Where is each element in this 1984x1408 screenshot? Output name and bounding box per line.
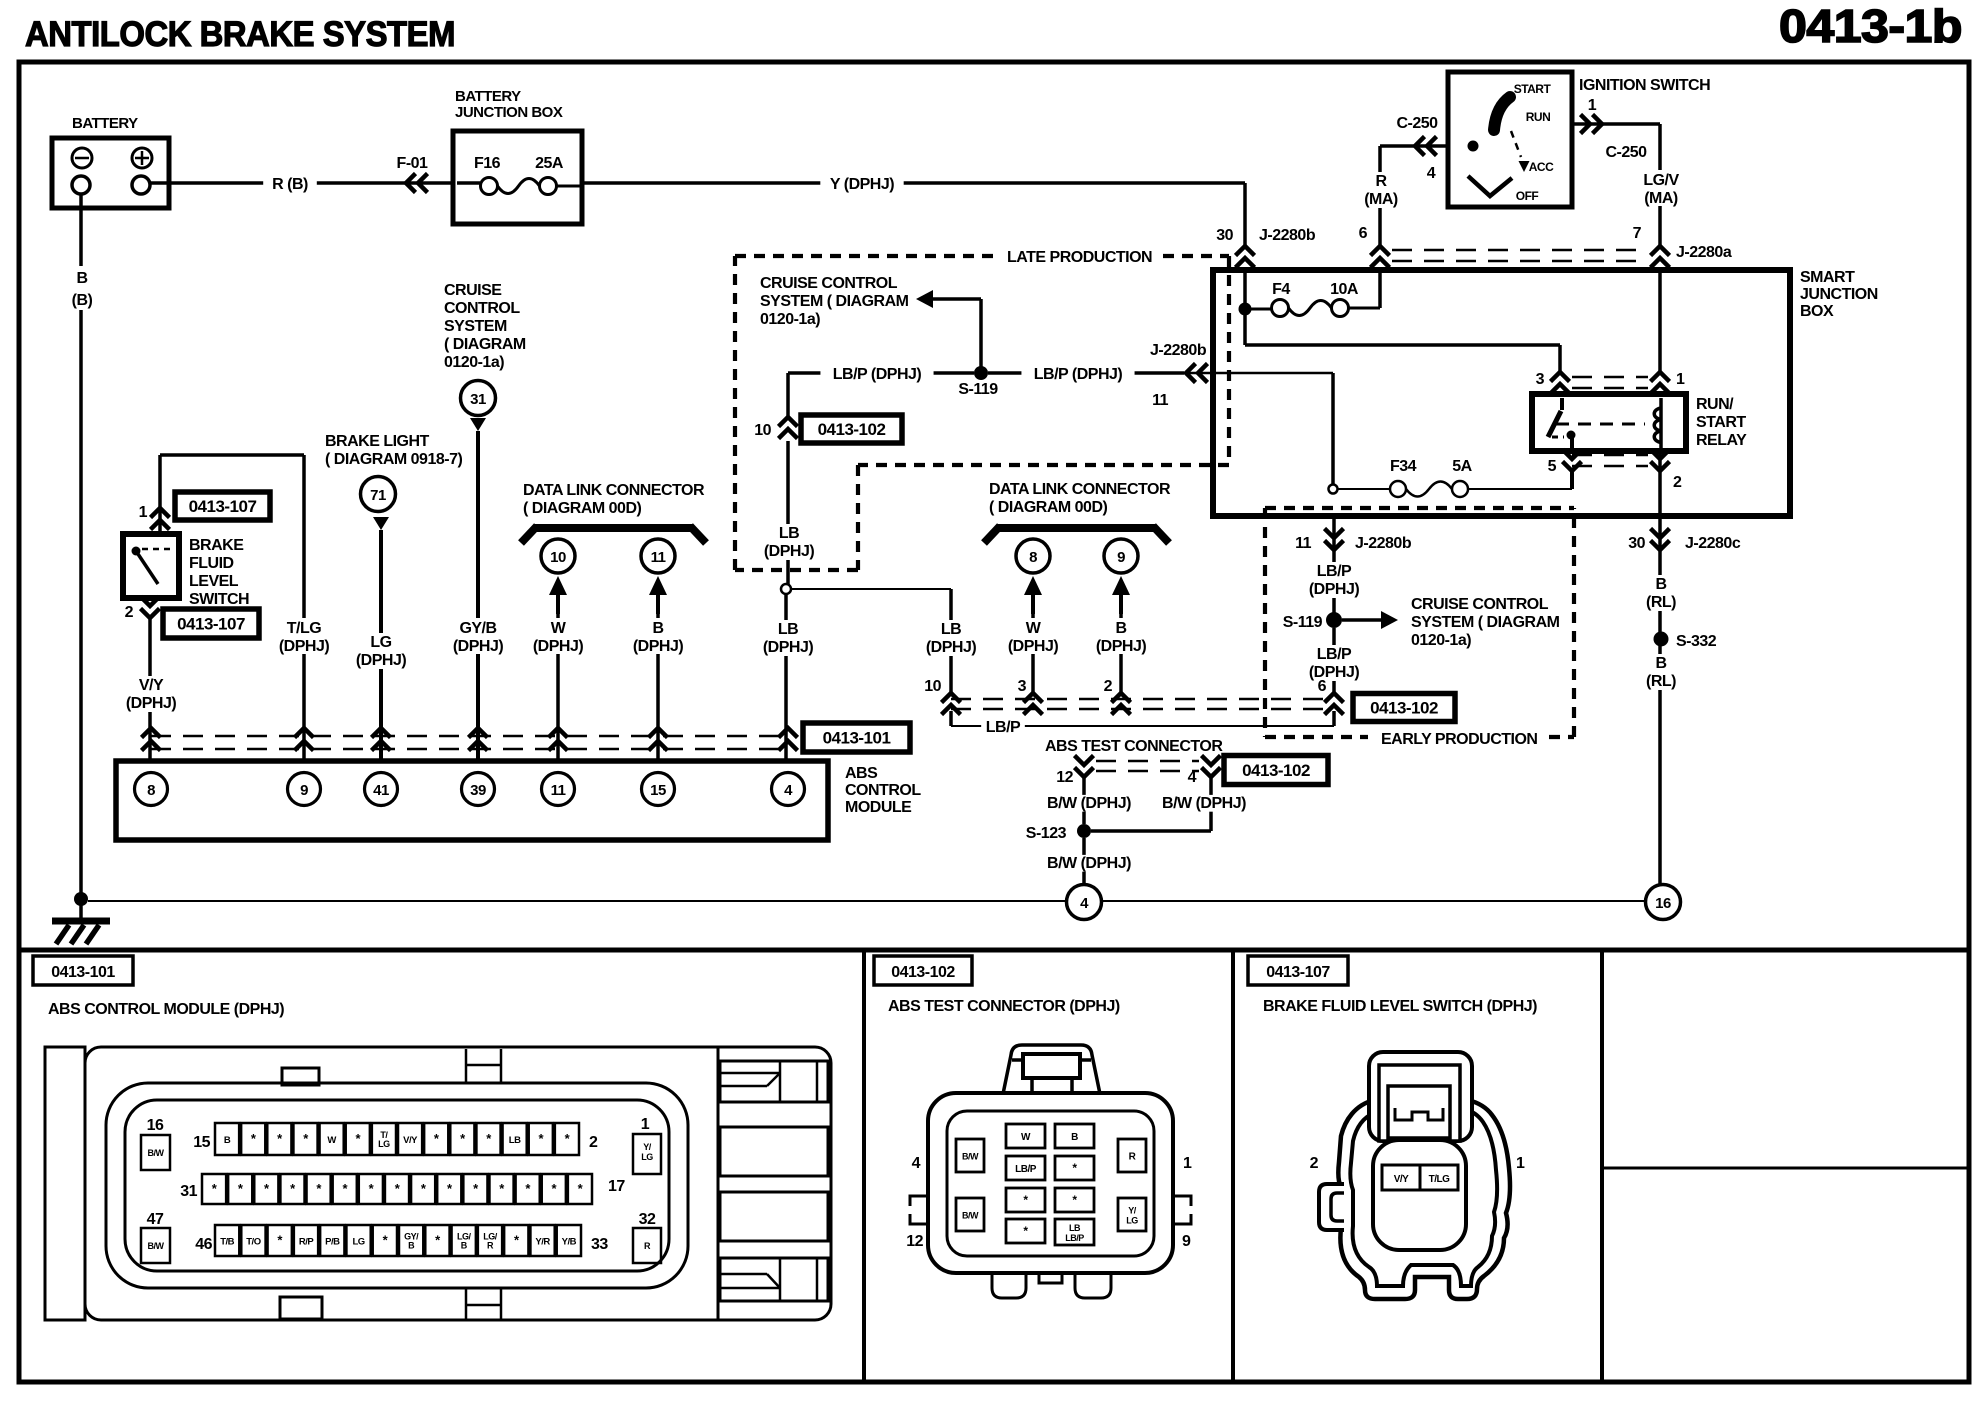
svg-text:16: 16 bbox=[147, 1117, 164, 1134]
svg-text:4: 4 bbox=[784, 782, 793, 799]
svg-text:LB/P (DPHJ): LB/P (DPHJ) bbox=[1034, 366, 1123, 383]
svg-text:R (B): R (B) bbox=[272, 176, 308, 193]
svg-text:5: 5 bbox=[1548, 458, 1557, 475]
svg-text:B/W (DPHJ): B/W (DPHJ) bbox=[1047, 855, 1131, 872]
svg-text:47: 47 bbox=[147, 1211, 164, 1228]
svg-text:15: 15 bbox=[650, 782, 666, 799]
svg-text:41: 41 bbox=[373, 782, 389, 799]
svg-text:1: 1 bbox=[139, 504, 148, 521]
svg-text:(DPHJ): (DPHJ) bbox=[1096, 638, 1147, 655]
svg-text:2: 2 bbox=[1673, 474, 1682, 491]
svg-text:BATTERY: BATTERY bbox=[72, 115, 138, 132]
svg-text:33: 33 bbox=[591, 1236, 608, 1253]
svg-text:F34: F34 bbox=[1390, 458, 1417, 475]
svg-text:(DPHJ): (DPHJ) bbox=[633, 638, 684, 655]
svg-text:4: 4 bbox=[912, 1155, 921, 1172]
svg-text:4: 4 bbox=[1188, 769, 1197, 786]
svg-text:B/W: B/W bbox=[962, 1152, 979, 1162]
svg-text:ABS TEST CONNECTOR: ABS TEST CONNECTOR bbox=[1045, 738, 1223, 755]
svg-text:LB: LB bbox=[509, 1135, 521, 1146]
svg-text:32: 32 bbox=[639, 1211, 656, 1228]
svg-text:( DIAGRAM: ( DIAGRAM bbox=[444, 336, 526, 353]
svg-text:W: W bbox=[551, 620, 567, 637]
svg-text:2: 2 bbox=[1104, 678, 1113, 695]
svg-text:R: R bbox=[487, 1241, 494, 1251]
svg-text:(DPHJ): (DPHJ) bbox=[1309, 581, 1360, 598]
svg-text:OFF: OFF bbox=[1516, 189, 1539, 203]
svg-text:4: 4 bbox=[1080, 895, 1089, 912]
svg-text:11: 11 bbox=[1295, 535, 1312, 552]
svg-text:11: 11 bbox=[651, 549, 666, 566]
svg-text:CRUISE: CRUISE bbox=[444, 282, 502, 299]
svg-text:71: 71 bbox=[370, 487, 386, 504]
svg-text:10: 10 bbox=[924, 678, 941, 695]
svg-text:START: START bbox=[1514, 82, 1552, 96]
svg-text:DATA LINK CONNECTOR: DATA LINK CONNECTOR bbox=[989, 481, 1171, 498]
svg-text:LB/P: LB/P bbox=[1317, 563, 1352, 580]
svg-text:LEVEL: LEVEL bbox=[189, 573, 239, 590]
svg-text:4: 4 bbox=[1427, 165, 1436, 182]
svg-text:16: 16 bbox=[1655, 895, 1671, 912]
svg-text:LG: LG bbox=[378, 1139, 390, 1149]
svg-text:12: 12 bbox=[1056, 769, 1073, 786]
svg-text:ABS TEST CONNECTOR (DPHJ): ABS TEST CONNECTOR (DPHJ) bbox=[888, 998, 1120, 1015]
svg-text:FLUID: FLUID bbox=[189, 555, 234, 572]
svg-text:LB: LB bbox=[779, 525, 799, 542]
svg-text:0413-107: 0413-107 bbox=[189, 497, 257, 516]
svg-text:START: START bbox=[1696, 414, 1746, 431]
svg-text:9: 9 bbox=[1182, 1233, 1191, 1250]
svg-text:SMART: SMART bbox=[1800, 269, 1855, 286]
svg-text:BRAKE LIGHT: BRAKE LIGHT bbox=[325, 433, 430, 450]
svg-text:( DIAGRAM 00D): ( DIAGRAM 00D) bbox=[523, 500, 642, 517]
svg-text:W: W bbox=[1021, 1132, 1031, 1143]
svg-text:T/B: T/B bbox=[220, 1237, 234, 1248]
svg-text:0413-1b: 0413-1b bbox=[1779, 0, 1962, 52]
svg-text:B: B bbox=[1115, 620, 1126, 637]
svg-text:CONTROL: CONTROL bbox=[444, 300, 520, 317]
svg-text:11: 11 bbox=[551, 782, 566, 799]
svg-text:EARLY PRODUCTION: EARLY PRODUCTION bbox=[1381, 731, 1537, 748]
svg-text:LB: LB bbox=[941, 621, 961, 638]
svg-text:BATTERY: BATTERY bbox=[455, 88, 521, 105]
svg-text:8: 8 bbox=[1029, 549, 1037, 566]
svg-text:MODULE: MODULE bbox=[845, 799, 912, 816]
svg-text:C-250: C-250 bbox=[1396, 115, 1438, 132]
svg-text:(DPHJ): (DPHJ) bbox=[279, 638, 330, 655]
svg-text:(DPHJ): (DPHJ) bbox=[1008, 638, 1059, 655]
svg-text:P/B: P/B bbox=[325, 1237, 340, 1248]
svg-text:39: 39 bbox=[470, 782, 486, 799]
svg-text:J-2280a: J-2280a bbox=[1676, 244, 1732, 261]
svg-text:RUN: RUN bbox=[1526, 110, 1551, 124]
svg-text:(MA): (MA) bbox=[1364, 191, 1398, 208]
svg-text:LB/P: LB/P bbox=[1065, 1233, 1084, 1243]
svg-text:1: 1 bbox=[1588, 97, 1597, 114]
svg-text:30: 30 bbox=[1628, 535, 1645, 552]
svg-text:W: W bbox=[327, 1135, 336, 1146]
svg-text:31: 31 bbox=[470, 391, 486, 408]
svg-text:B: B bbox=[224, 1135, 231, 1146]
svg-text:S-119: S-119 bbox=[958, 381, 998, 398]
svg-text:RELAY: RELAY bbox=[1696, 432, 1747, 449]
svg-text:SYSTEM ( DIAGRAM: SYSTEM ( DIAGRAM bbox=[760, 293, 909, 310]
svg-text:10: 10 bbox=[550, 549, 566, 566]
svg-text:CONTROL: CONTROL bbox=[845, 782, 921, 799]
svg-text:3: 3 bbox=[1018, 678, 1027, 695]
svg-text:(DPHJ): (DPHJ) bbox=[764, 543, 815, 560]
svg-text:0120-1a): 0120-1a) bbox=[760, 311, 820, 328]
svg-text:J-2280c: J-2280c bbox=[1685, 535, 1741, 552]
svg-text:SYSTEM ( DIAGRAM: SYSTEM ( DIAGRAM bbox=[1411, 614, 1560, 631]
svg-text:B/W (DPHJ): B/W (DPHJ) bbox=[1047, 795, 1131, 812]
svg-text:V/Y: V/Y bbox=[139, 677, 164, 694]
svg-text:25A: 25A bbox=[535, 155, 564, 172]
svg-text:(RL): (RL) bbox=[1646, 673, 1676, 690]
svg-text:DATA LINK CONNECTOR: DATA LINK CONNECTOR bbox=[523, 482, 705, 499]
svg-text:W: W bbox=[1026, 620, 1042, 637]
svg-text:F4: F4 bbox=[1272, 281, 1290, 298]
svg-text:BRAKE FLUID LEVEL SWITCH (DPHJ: BRAKE FLUID LEVEL SWITCH (DPHJ) bbox=[1263, 998, 1537, 1015]
svg-text:LB/P (DPHJ): LB/P (DPHJ) bbox=[833, 366, 922, 383]
svg-text:LB/P: LB/P bbox=[1015, 1164, 1037, 1175]
svg-text:1: 1 bbox=[1516, 1155, 1525, 1172]
svg-text:0413-107: 0413-107 bbox=[1266, 964, 1330, 981]
svg-text:IGNITION SWITCH: IGNITION SWITCH bbox=[1579, 77, 1710, 94]
svg-text:15: 15 bbox=[193, 1134, 210, 1151]
svg-text:B: B bbox=[408, 1241, 415, 1251]
svg-text:ACC: ACC bbox=[1529, 160, 1554, 174]
svg-text:2: 2 bbox=[589, 1134, 598, 1151]
svg-text:46: 46 bbox=[195, 1236, 212, 1253]
svg-text:30: 30 bbox=[1216, 227, 1233, 244]
svg-text:6: 6 bbox=[1359, 225, 1368, 242]
svg-text:0120-1a): 0120-1a) bbox=[1411, 632, 1471, 649]
svg-text:9: 9 bbox=[300, 782, 308, 799]
svg-text:JUNCTION BOX: JUNCTION BOX bbox=[455, 104, 563, 121]
svg-text:Y/B: Y/B bbox=[562, 1237, 577, 1248]
svg-text:( DIAGRAM 0918-7): ( DIAGRAM 0918-7) bbox=[325, 451, 462, 468]
svg-text:B: B bbox=[1071, 1132, 1078, 1143]
svg-text:R: R bbox=[1375, 173, 1387, 190]
svg-text:LB/P: LB/P bbox=[1317, 646, 1352, 663]
svg-text:GY/B: GY/B bbox=[459, 620, 496, 637]
svg-text:LG/V: LG/V bbox=[1643, 172, 1679, 189]
svg-text:ANTILOCK BRAKE SYSTEM: ANTILOCK BRAKE SYSTEM bbox=[25, 15, 455, 54]
svg-text:ABS CONTROL MODULE (DPHJ): ABS CONTROL MODULE (DPHJ) bbox=[48, 1001, 284, 1018]
svg-text:F-01: F-01 bbox=[397, 155, 429, 172]
svg-text:T/LG: T/LG bbox=[287, 620, 321, 637]
svg-text:B/W: B/W bbox=[148, 1148, 165, 1158]
svg-text:S-123: S-123 bbox=[1026, 825, 1067, 842]
svg-text:0413-107: 0413-107 bbox=[177, 615, 245, 634]
svg-text:JUNCTION: JUNCTION bbox=[1800, 286, 1878, 303]
svg-text:J-2280b: J-2280b bbox=[1259, 227, 1316, 244]
svg-text:5A: 5A bbox=[1452, 458, 1472, 475]
svg-text:1: 1 bbox=[1183, 1155, 1192, 1172]
svg-text:SYSTEM: SYSTEM bbox=[444, 318, 507, 335]
svg-text:(DPHJ): (DPHJ) bbox=[1309, 664, 1360, 681]
svg-text:R/P: R/P bbox=[299, 1237, 315, 1248]
svg-text:S-119: S-119 bbox=[1283, 614, 1323, 631]
svg-text:J-2280b: J-2280b bbox=[1355, 535, 1412, 552]
svg-text:B: B bbox=[76, 270, 87, 287]
svg-text:ABS: ABS bbox=[845, 765, 878, 782]
svg-text:B/W: B/W bbox=[148, 1241, 165, 1251]
svg-text:( DIAGRAM 00D): ( DIAGRAM 00D) bbox=[989, 499, 1108, 516]
svg-text:11: 11 bbox=[1152, 392, 1169, 409]
svg-text:0413-102: 0413-102 bbox=[1242, 761, 1310, 780]
svg-text:B/W: B/W bbox=[962, 1211, 979, 1221]
svg-text:(RL): (RL) bbox=[1646, 594, 1676, 611]
svg-text:S-332: S-332 bbox=[1676, 633, 1717, 650]
svg-text:0413-101: 0413-101 bbox=[823, 729, 891, 748]
svg-text:V/Y: V/Y bbox=[1394, 1174, 1409, 1185]
svg-text:1: 1 bbox=[641, 1116, 650, 1133]
svg-text:LB/P: LB/P bbox=[986, 719, 1021, 736]
svg-text:7: 7 bbox=[1633, 225, 1642, 242]
svg-text:LB: LB bbox=[778, 621, 798, 638]
svg-text:R: R bbox=[644, 1241, 651, 1251]
svg-text:6: 6 bbox=[1318, 678, 1327, 695]
svg-text:0413-102: 0413-102 bbox=[1370, 699, 1438, 718]
svg-text:(DPHJ): (DPHJ) bbox=[126, 695, 177, 712]
svg-text:C-250: C-250 bbox=[1605, 144, 1647, 161]
svg-text:(MA): (MA) bbox=[1644, 190, 1678, 207]
svg-text:(B): (B) bbox=[72, 292, 93, 309]
svg-text:0120-1a): 0120-1a) bbox=[444, 354, 504, 371]
svg-text:1: 1 bbox=[1676, 371, 1685, 388]
svg-text:LG: LG bbox=[370, 634, 391, 651]
svg-text:LG: LG bbox=[352, 1237, 364, 1248]
svg-text:12: 12 bbox=[906, 1233, 923, 1250]
svg-text:10A: 10A bbox=[1330, 281, 1359, 298]
svg-text:2: 2 bbox=[1310, 1155, 1319, 1172]
svg-text:17: 17 bbox=[608, 1178, 625, 1195]
svg-text:Y/: Y/ bbox=[1128, 1206, 1137, 1216]
svg-text:10: 10 bbox=[754, 422, 771, 439]
svg-text:Y (DPHJ): Y (DPHJ) bbox=[830, 176, 894, 193]
svg-text:LATE PRODUCTION: LATE PRODUCTION bbox=[1007, 249, 1152, 266]
svg-text:3: 3 bbox=[1536, 371, 1545, 388]
svg-text:(DPHJ): (DPHJ) bbox=[763, 639, 814, 656]
svg-text:0413-102: 0413-102 bbox=[891, 964, 955, 981]
svg-text:2: 2 bbox=[125, 604, 134, 621]
svg-text:RUN/: RUN/ bbox=[1696, 396, 1734, 413]
svg-text:(DPHJ): (DPHJ) bbox=[356, 652, 407, 669]
svg-text:BRAKE: BRAKE bbox=[189, 537, 244, 554]
svg-text:(DPHJ): (DPHJ) bbox=[533, 638, 584, 655]
svg-text:(DPHJ): (DPHJ) bbox=[926, 639, 977, 656]
svg-text:B: B bbox=[461, 1241, 468, 1251]
svg-text:LB: LB bbox=[1069, 1223, 1081, 1233]
svg-text:8: 8 bbox=[147, 782, 155, 799]
svg-text:B: B bbox=[1655, 655, 1666, 672]
svg-text:31: 31 bbox=[180, 1183, 197, 1200]
svg-text:CRUISE CONTROL: CRUISE CONTROL bbox=[760, 275, 898, 292]
svg-text:B: B bbox=[652, 620, 663, 637]
svg-text:B: B bbox=[1655, 576, 1666, 593]
svg-text:J-2280b: J-2280b bbox=[1150, 342, 1207, 359]
svg-text:(DPHJ): (DPHJ) bbox=[453, 638, 504, 655]
svg-text:F16: F16 bbox=[474, 155, 501, 172]
svg-text:T/O: T/O bbox=[246, 1237, 260, 1248]
svg-text:9: 9 bbox=[1117, 549, 1125, 566]
svg-text:0413-101: 0413-101 bbox=[51, 964, 115, 981]
svg-text:V/Y: V/Y bbox=[403, 1135, 418, 1146]
svg-text:Y/R: Y/R bbox=[535, 1237, 550, 1248]
svg-text:CRUISE CONTROL: CRUISE CONTROL bbox=[1411, 596, 1549, 613]
svg-text:SWITCH: SWITCH bbox=[189, 591, 249, 608]
svg-text:T/LG: T/LG bbox=[1429, 1174, 1450, 1185]
svg-text:LG: LG bbox=[641, 1152, 653, 1162]
svg-text:BOX: BOX bbox=[1800, 303, 1834, 320]
svg-text:Y/: Y/ bbox=[643, 1142, 652, 1152]
svg-text:0413-102: 0413-102 bbox=[818, 420, 886, 439]
svg-text:LG: LG bbox=[1126, 1216, 1138, 1226]
svg-text:B/W (DPHJ): B/W (DPHJ) bbox=[1162, 795, 1246, 812]
